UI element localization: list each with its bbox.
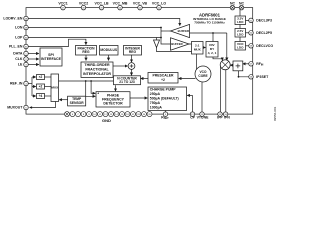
svg-text:250µA: 250µA bbox=[150, 92, 161, 96]
wire LO input amp to 2:1 MUX bbox=[157, 48, 192, 52]
svg-text:REG: REG bbox=[129, 50, 137, 54]
pin IFP bbox=[217, 112, 223, 119]
svg-text:VCC1: VCC1 bbox=[58, 2, 67, 6]
svg-text:DECLVCO: DECLVCO bbox=[256, 44, 273, 48]
wire REF_IN into div2 bbox=[32, 86, 36, 88]
svg-text:÷2: ÷2 bbox=[39, 84, 43, 88]
svg-text:NC: NC bbox=[230, 2, 236, 6]
wire TEMP SENSOR to ref MUX bbox=[59, 99, 67, 101]
svg-text:RSET: RSET bbox=[161, 115, 169, 120]
svg-text:LDO: LDO bbox=[237, 46, 244, 50]
pin REF_IN bbox=[10, 81, 28, 86]
pin MUXOUT bbox=[7, 105, 28, 110]
svg-text:GND: GND bbox=[102, 118, 111, 123]
svg-text:LE: LE bbox=[18, 63, 23, 67]
svg-text:NC: NC bbox=[239, 2, 245, 6]
svg-text:RFIN: RFIN bbox=[256, 62, 263, 67]
svg-text:MUX: MUX bbox=[51, 86, 59, 90]
block PRESCALER divide-by-2 bbox=[148, 73, 178, 84]
svg-text:×2: ×2 bbox=[39, 75, 43, 79]
wire MODULUS to interpolator bbox=[108, 55, 110, 60]
svg-text:VCC_VB: VCC_VB bbox=[133, 2, 148, 6]
wire div2 to ref MUX bbox=[45, 86, 52, 88]
svg-text:VCC2: VCC2 bbox=[79, 2, 88, 6]
pin VCC_MIX bbox=[113, 2, 128, 10]
wire supply into 3.3V LDO bbox=[239, 8, 241, 16]
svg-text:LODRV_EN: LODRV_EN bbox=[3, 17, 22, 21]
junction IP3SET bias bbox=[238, 76, 240, 78]
wire VCO to prescaler bbox=[179, 78, 196, 80]
block 3.3V LDO bbox=[235, 16, 246, 25]
block VCO LDO bbox=[235, 42, 246, 51]
pin NC 1 bbox=[230, 2, 236, 10]
wire ref MUX to PFD reference bbox=[59, 80, 114, 82]
svg-text:CP: CP bbox=[190, 115, 196, 119]
svg-text:DECL3P3: DECL3P3 bbox=[256, 19, 272, 23]
svg-text:750µA: 750µA bbox=[150, 101, 161, 105]
svg-text:DETECTOR: DETECTOR bbox=[103, 102, 123, 106]
wire REF_IN stub bbox=[28, 83, 32, 85]
block N COUNTER 21 TO 123 bbox=[114, 76, 141, 85]
pin VCC_VB bbox=[133, 2, 148, 10]
svg-text:LON: LON bbox=[15, 26, 23, 30]
wire LON bbox=[28, 27, 161, 29]
pin CP bbox=[190, 112, 196, 119]
block INTEGER REG bbox=[124, 46, 142, 56]
svg-text:CORE: CORE bbox=[198, 74, 207, 78]
junction LOP vertical bbox=[160, 37, 162, 39]
pin LON bbox=[15, 25, 28, 30]
svg-text:MUX: MUX bbox=[194, 48, 202, 52]
svg-text:FRACTIONAL: FRACTIONAL bbox=[85, 68, 109, 72]
wire mixer IF output to IFP bbox=[220, 67, 222, 112]
pin DATA bbox=[13, 51, 28, 56]
block divide-by-4 bbox=[37, 94, 45, 99]
junction reference branch lower bbox=[85, 80, 87, 82]
pin VCC_LO bbox=[152, 2, 166, 10]
IF amplifier bbox=[233, 61, 243, 71]
svg-text:21 TO 123: 21 TO 123 bbox=[119, 80, 135, 84]
wire interpolator to summer bbox=[113, 65, 128, 67]
wire mixer IF output to IFN bbox=[225, 70, 227, 112]
svg-text:09556-001: 09556-001 bbox=[273, 106, 277, 121]
pin VTUNE bbox=[197, 112, 210, 119]
svg-text:BUFFER: BUFFER bbox=[178, 29, 189, 33]
pin RFIN bbox=[249, 62, 264, 67]
svg-text:CHARGE PUMP: CHARGE PUMP bbox=[150, 88, 176, 92]
pin PLL_EN bbox=[9, 44, 28, 49]
svg-text:750MHz TO 1150MHz: 750MHz TO 1150MHz bbox=[194, 21, 225, 25]
junction LO riser bbox=[212, 32, 214, 34]
wire LODRV_EN to LO output buffer enable bbox=[28, 19, 179, 26]
pin IP3SET bbox=[249, 75, 269, 80]
wire reference branch down into PFD upper input bbox=[91, 81, 95, 93]
pin VCC1 bbox=[58, 2, 67, 10]
wire LDO chain 3.3V to 2.5V bbox=[239, 25, 241, 29]
block FRACTION REG bbox=[76, 46, 97, 56]
wire CP into charge pump bbox=[187, 94, 192, 96]
arrowhead into MUXOUT pin bbox=[29, 106, 32, 108]
svg-text:VCC_LB: VCC_LB bbox=[94, 2, 108, 6]
svg-text:500µA (DEFAULT): 500µA (DEFAULT) bbox=[150, 97, 179, 101]
wire DATA to SPI bbox=[28, 53, 38, 55]
pin VCC2 bbox=[79, 2, 88, 10]
wire LDO chain 2.5V to VCO LDO bbox=[239, 37, 241, 42]
svg-text:BUFFER: BUFFER bbox=[171, 42, 182, 46]
block THIRD-ORDER FRACTIONAL INTERPOLATOR bbox=[81, 62, 113, 77]
wire LO divider bottom output bbox=[213, 57, 222, 60]
pin NC 2 bbox=[239, 2, 245, 10]
pin LOP bbox=[15, 35, 28, 40]
wire 2:1 MUX to LO divider bbox=[203, 47, 205, 49]
svg-text:VTUNE: VTUNE bbox=[197, 115, 210, 119]
wire REF_IN into div4 bbox=[32, 95, 36, 97]
wire RFIN to input amp bbox=[243, 63, 249, 65]
wire branch down into PFD lower input bbox=[86, 81, 96, 96]
svg-text:+: + bbox=[97, 92, 99, 96]
pin DECL3P3 bbox=[249, 18, 272, 23]
svg-text:CLK: CLK bbox=[15, 57, 23, 61]
LO input amp triangle bbox=[154, 40, 160, 48]
wire LO divider top riser bbox=[212, 33, 214, 42]
pin VCC_LB bbox=[94, 2, 108, 10]
svg-text:LOP: LOP bbox=[15, 36, 23, 40]
svg-text:INTERPOLATOR: INTERPOLATOR bbox=[83, 72, 111, 76]
wire REF_IN branch vertical bbox=[31, 77, 33, 96]
wire prescaler to N counter bbox=[141, 78, 148, 80]
svg-text:LDO: LDO bbox=[237, 20, 244, 24]
wire div4 to ref MUX bbox=[45, 95, 52, 97]
wire REF_IN into x2 doubler bbox=[32, 76, 36, 78]
wire IP3SET to input amp bias bbox=[239, 71, 249, 77]
pin IFN bbox=[223, 112, 230, 119]
svg-text:LDO: LDO bbox=[237, 33, 244, 37]
title ADRF6601 bbox=[193, 13, 226, 25]
wire RSET stub bbox=[165, 111, 167, 112]
svg-text:VCC_LO: VCC_LO bbox=[152, 2, 166, 6]
GND pin chain bbox=[65, 112, 153, 117]
block DIV BY 4 2 1 bbox=[206, 42, 218, 58]
pin LE bbox=[18, 62, 28, 67]
pin DECL2P5 bbox=[249, 31, 272, 36]
svg-text:VCC_MB: VCC_MB bbox=[113, 2, 128, 6]
summer sigma node bbox=[128, 63, 135, 70]
svg-text:1000µA: 1000µA bbox=[150, 105, 163, 109]
LO output buffer bbox=[171, 24, 190, 37]
wire input amp to mixer bbox=[230, 64, 233, 66]
svg-text:IFP: IFP bbox=[217, 115, 223, 119]
junction reference branch upper bbox=[90, 80, 92, 82]
block 2.5V LDO bbox=[235, 29, 246, 38]
block reference MUX bbox=[51, 74, 59, 102]
svg-text:REF_IN: REF_IN bbox=[10, 82, 23, 86]
wire LOP bbox=[28, 37, 161, 39]
wire PLL_EN to FRACTION REG bbox=[28, 39, 86, 46]
block CHARGE PUMP bbox=[148, 87, 187, 111]
wire INTEGER REG to summer bbox=[131, 55, 133, 62]
wire LE to SPI bbox=[28, 64, 38, 66]
chip package outline bbox=[26, 8, 253, 115]
svg-text:MODULUS: MODULUS bbox=[100, 48, 117, 52]
svg-text:÷2: ÷2 bbox=[161, 78, 165, 82]
svg-text:INTERFACE: INTERFACE bbox=[41, 57, 62, 61]
LO input buffer bbox=[171, 38, 190, 50]
mixer bbox=[220, 60, 230, 70]
svg-text:REG: REG bbox=[82, 50, 90, 54]
wire LO to output buffer and mixer bbox=[190, 32, 227, 34]
wire LO down into mixer bbox=[226, 33, 228, 60]
svg-text:SENSOR: SENSOR bbox=[70, 101, 85, 105]
wire 2.5V LDO to DECL2P5 bbox=[246, 32, 249, 34]
block MODULUS bbox=[100, 46, 119, 56]
wire x2 to ref MUX bbox=[45, 76, 52, 78]
block divide-by-2 bbox=[37, 84, 45, 89]
svg-text:THIRD-ORDER: THIRD-ORDER bbox=[84, 63, 110, 67]
wire LOP branch into LO input amp bbox=[156, 38, 158, 41]
svg-text:DATA: DATA bbox=[13, 52, 23, 56]
wire CP pin up bbox=[192, 95, 194, 111]
wire VCO LDO to DECLVCO bbox=[246, 45, 249, 47]
svg-text:DECL2P5: DECL2P5 bbox=[256, 31, 272, 35]
svg-text:IFN: IFN bbox=[224, 115, 230, 119]
pin DECLVCO bbox=[249, 44, 274, 49]
wire N counter into PFD bbox=[115, 85, 117, 91]
wire VTUNE to VCO bbox=[201, 82, 203, 112]
pin CLK bbox=[15, 57, 28, 62]
wire LON branch down to input buffer bbox=[161, 28, 171, 45]
svg-text:IP3SET: IP3SET bbox=[256, 75, 269, 79]
svg-text:÷4: ÷4 bbox=[39, 94, 43, 98]
svg-text:MUXOUT: MUXOUT bbox=[7, 106, 23, 110]
wire ref MUX down to MUXOUT bbox=[31, 102, 56, 108]
wire LO output buffer apex to LO pins bbox=[161, 30, 171, 32]
block TEMP SENSOR bbox=[68, 96, 86, 106]
wire LO input buffer to 2:1 MUX bbox=[189, 43, 192, 45]
wire FRACTION REG to interpolator bbox=[85, 55, 87, 60]
VCO core oscillator bbox=[195, 66, 211, 82]
wire 3.3V LDO to DECL3P3 bbox=[246, 19, 249, 21]
pin LODRV_EN bbox=[3, 16, 28, 21]
pin RSET bbox=[161, 112, 169, 120]
svg-text:PLL_EN: PLL_EN bbox=[9, 45, 23, 49]
wire summer to N counter bbox=[131, 69, 133, 75]
wire CLK to SPI bbox=[28, 58, 38, 60]
wire PFD to charge pump bbox=[130, 97, 147, 99]
block SPI INTERFACE bbox=[40, 48, 62, 66]
block 2:1 MUX bbox=[192, 42, 204, 55]
svg-text:4, 2, 1: 4, 2, 1 bbox=[208, 51, 217, 55]
block x2 doubler bbox=[37, 75, 45, 80]
wire VCO to 2:1 MUX bbox=[196, 54, 198, 71]
block PHASE FREQUENCY DETECTOR bbox=[96, 92, 130, 107]
junction LON vertical bbox=[160, 27, 162, 29]
